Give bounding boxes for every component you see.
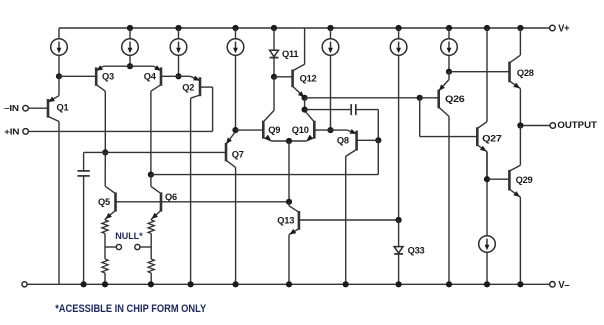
svg-text:Q9: Q9	[268, 125, 280, 135]
junction on V- rail	[148, 281, 154, 287]
wire Q4 collector column	[150, 91, 152, 174]
junction Q4/Q6 collectors node	[148, 172, 154, 178]
svg-text:Q33: Q33	[408, 245, 425, 255]
transistor Q1	[47, 99, 50, 118]
wire R3 to tap	[150, 234, 152, 248]
wire emitters down to Q13	[288, 141, 290, 202]
terminal +IN	[23, 129, 29, 135]
svg-text:+IN: +IN	[4, 127, 19, 136]
transistor Q8	[355, 131, 358, 151]
junction Q9/Q10 emitters	[286, 138, 292, 144]
wire Q8 base right	[357, 139, 379, 141]
svg-text:Q3: Q3	[102, 72, 114, 82]
transistor Q5	[114, 192, 117, 211]
wire +IN line	[29, 130, 213, 132]
junction Q11 / Q12 base / Q9 collector	[271, 74, 277, 80]
terminal V+	[550, 25, 556, 31]
svg-text:Q7: Q7	[232, 149, 244, 159]
terminal NULL right	[135, 244, 140, 249]
wire C1 top lead	[84, 151, 106, 153]
wire Q29 collector up to output	[519, 126, 521, 166]
capacitor C2	[350, 104, 352, 115]
resistor R4 (lower right)	[150, 247, 152, 259]
wire Q1 emitter up	[58, 76, 60, 95]
wire Q5-Q6 base line to Q13 collector node	[116, 201, 290, 203]
wire to Q27 base	[420, 136, 478, 138]
wire Q2 emitter elbow	[179, 75, 191, 77]
resistor R2 (lower left)	[104, 247, 106, 259]
svg-text:NULL*: NULL*	[115, 231, 143, 242]
current source I6	[398, 28, 400, 39]
diode Q11	[270, 50, 279, 56]
diode Q33	[394, 247, 403, 253]
wire Q9-Q10 emitter bus	[272, 140, 307, 142]
wire Q9 collector up	[273, 77, 275, 111]
wire R1 to tap	[104, 234, 106, 248]
transistor Q3	[95, 67, 98, 85]
svg-text:Q6: Q6	[165, 192, 177, 202]
resistor R3 (Q6 emitter upper)	[150, 218, 152, 221]
transistor Q7	[225, 143, 228, 161]
svg-text:Q28: Q28	[517, 68, 534, 78]
junction Q8 base node	[375, 137, 381, 143]
svg-text:V+: V+	[558, 24, 569, 35]
wire C2 left lead	[305, 109, 352, 111]
junction Q3 collector / C1 / Q7 base / Q5 collector	[102, 149, 108, 155]
junction on V+ rail	[446, 25, 452, 31]
wire Q10 base	[314, 129, 330, 131]
junction on V- rail	[484, 281, 490, 287]
wire Q8 emitter elbow	[331, 129, 348, 131]
wire Q7 base	[105, 151, 226, 153]
transistor Q2	[199, 77, 202, 96]
wire Q29 emitter down to V- rail	[519, 197, 521, 284]
junction on V- rail	[102, 281, 108, 287]
wire Q12 emitter to Q26 base line	[305, 97, 420, 99]
junction on V+ rail	[396, 25, 402, 31]
wire Q12 collector up to V+ rail	[304, 28, 306, 64]
wire Q27 emitter down	[486, 152, 488, 180]
svg-text:Q26: Q26	[445, 94, 465, 104]
junction Q12 emitter node	[302, 95, 308, 101]
junction Q9 base / Q7 emitter / I4	[232, 127, 238, 133]
svg-text:Q12: Q12	[300, 74, 317, 84]
wire Q26 base	[420, 97, 439, 99]
wire Q26 emitter up	[448, 72, 450, 80]
svg-text:Q27: Q27	[482, 133, 502, 143]
wire Q8 collector down to V- rail	[345, 156, 347, 284]
capacitor C1	[77, 170, 89, 172]
svg-text:*ACESSIBLE IN CHIP FORM ONLY: *ACESSIBLE IN CHIP FORM ONLY	[55, 303, 207, 315]
svg-text:Q2: Q2	[182, 82, 194, 92]
junction on V+ rail	[484, 25, 490, 31]
svg-text:Q11: Q11	[282, 49, 298, 59]
wire Q4 base	[161, 75, 179, 77]
terminal bottom-left	[22, 282, 27, 287]
wire C1 bottom lead to V- rail	[83, 176, 85, 284]
junction on V- rail	[517, 281, 523, 287]
wire Q12 emitter column	[304, 98, 306, 111]
current source I5	[330, 28, 332, 39]
junction on V- rail	[446, 281, 452, 287]
wire Q1 collector down to V- rail	[58, 122, 60, 285]
terminal OUTPUT	[550, 123, 556, 129]
terminal -IN	[23, 105, 29, 111]
current source I8	[486, 152, 488, 236]
transistor Q28	[508, 62, 511, 83]
junction Q29 base node	[484, 176, 490, 182]
wire Q28 collector up to V+ rail	[519, 28, 521, 55]
wire Q8 base node down	[377, 140, 379, 174]
junction Q26 emitter / Q28 base / I7	[446, 69, 452, 75]
current source I2	[129, 28, 131, 39]
wire Q11 cathode	[273, 58, 275, 77]
wire Q12 base	[274, 76, 293, 78]
wire Q13 collector stub	[288, 202, 290, 206]
junction on V+ rail	[327, 25, 333, 31]
transistor Q29	[508, 170, 511, 191]
wire Q7 collector down to V- rail	[235, 167, 237, 284]
wire feedback line y=174.6	[151, 174, 378, 176]
wire Q3-Q4 emitter bus	[104, 65, 154, 67]
wire null tap left	[105, 246, 116, 248]
transistor Q4	[160, 67, 163, 85]
junction on V- rail	[396, 281, 402, 287]
svg-text:Q29: Q29	[516, 175, 533, 185]
junction on V- rail	[81, 281, 87, 287]
junction on V+ rail	[517, 25, 523, 31]
svg-text:OUTPUT: OUTPUT	[557, 120, 597, 130]
wire Q3 base	[59, 75, 96, 77]
wire Q26 collector down to V- rail	[448, 116, 450, 284]
wire Q13 emitter down to V- rail	[288, 235, 290, 285]
junction on V- rail	[233, 281, 239, 287]
wire Q13 base	[299, 219, 399, 221]
junction Q13 base / I6 / Q33	[396, 217, 402, 223]
wire Q6 collector up	[150, 175, 152, 187]
wire Q2 base right	[200, 86, 213, 88]
wire V- bottom rail	[28, 283, 550, 285]
transistor Q12	[291, 70, 294, 88]
junction Q13 collector node	[286, 199, 292, 205]
svg-text:Q8: Q8	[337, 135, 349, 145]
wire output stub	[523, 125, 550, 127]
junction on V+ rail	[232, 25, 238, 31]
junction OUTPUT node	[517, 122, 523, 128]
wire Q27 collector up to V+ rail	[486, 28, 488, 122]
terminal NULL left	[116, 244, 121, 249]
junction Q3/Q4 emitters	[127, 63, 133, 69]
wire C2 right lead	[356, 109, 379, 111]
junction Q26 base node	[417, 95, 423, 101]
wire Q2 collector down to V- rail	[190, 98, 192, 284]
wire Q26 emitter node to Q28 base	[449, 71, 510, 73]
transistor Q6	[160, 192, 163, 211]
wire Q2 base down to +IN	[212, 87, 214, 131]
resistor R1 (Q5 emitter upper)	[104, 218, 106, 221]
svg-text:Q1: Q1	[57, 103, 69, 113]
transistor Q10	[313, 121, 316, 139]
wire Q3 collector column	[104, 91, 106, 152]
transistor Q9	[262, 121, 265, 139]
junction node A (Q1 emitter / Q3 base / I1)	[56, 73, 62, 79]
wire Q11 anode	[273, 28, 275, 50]
junction on V- rail	[286, 281, 292, 287]
terminal V-	[550, 282, 556, 288]
junction on V- rail	[188, 281, 194, 287]
transistor Q26	[437, 90, 440, 109]
wire -IN to Q1 base	[29, 107, 48, 109]
current source I4	[235, 28, 237, 39]
wire Q28 emitter down to output	[519, 89, 521, 126]
junction C2 left node	[302, 107, 308, 113]
junction on V+ rail	[271, 25, 277, 31]
transistor Q27	[476, 127, 479, 146]
junction Q4 base / Q2 emitter / I3	[175, 73, 181, 79]
wire Q9 base	[236, 129, 264, 131]
wire Q26 base node down	[419, 98, 421, 137]
wire Q5 collector up	[104, 152, 106, 186]
svg-text:–IN: –IN	[4, 104, 19, 113]
junction Q10 base / Q8 emitter / I5	[327, 127, 333, 133]
wire Q29 base	[487, 178, 509, 180]
svg-text:Q10: Q10	[292, 125, 309, 135]
current source I7	[448, 28, 450, 39]
svg-text:V–: V–	[558, 280, 570, 291]
junction on V- rail	[343, 281, 349, 287]
svg-text:Q13: Q13	[277, 215, 294, 225]
wire Q33 anode	[398, 220, 400, 247]
junction on V+ rail	[127, 25, 133, 31]
current source I1	[58, 28, 60, 39]
svg-text:Q4: Q4	[144, 72, 157, 82]
wire V+ top rail	[59, 27, 549, 29]
svg-text:Q5: Q5	[98, 197, 110, 207]
wire null tap right	[140, 246, 151, 248]
transistor Q13	[298, 211, 301, 230]
junction on V+ rail	[175, 25, 181, 31]
current source I3	[178, 28, 180, 39]
wire Q33 cathode	[398, 254, 400, 284]
